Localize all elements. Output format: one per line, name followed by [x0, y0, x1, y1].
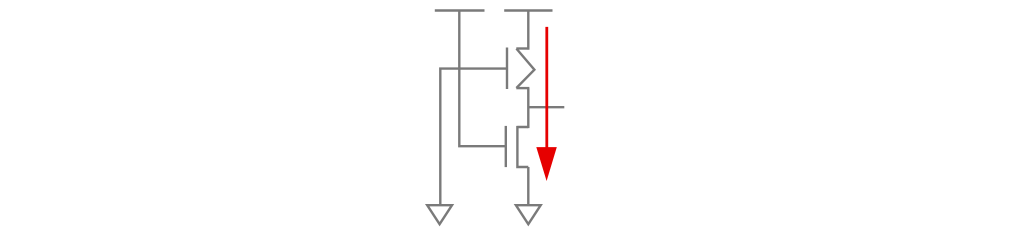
wire M1 source to M2 drain — [527, 88, 529, 128]
wire VDD-left rail down to M2 gate — [459, 11, 505, 147]
nmos transistor M2 (lower) — [506, 126, 529, 168]
ground (left) — [427, 205, 452, 224]
node: output stub — [528, 106, 564, 108]
pmos transistor M1 (upper, arrow-channel symbol) — [507, 48, 534, 90]
current arrow I (red) — [536, 27, 557, 181]
power rail VDD (left) — [435, 9, 485, 12]
ground (right) — [516, 205, 541, 224]
wire M1 gate to left ground branch — [440, 69, 506, 205]
power rail VDD (right) — [504, 9, 552, 12]
wire M2 source to right ground — [527, 167, 529, 205]
wire VDD-right to M1 drain — [527, 11, 529, 50]
